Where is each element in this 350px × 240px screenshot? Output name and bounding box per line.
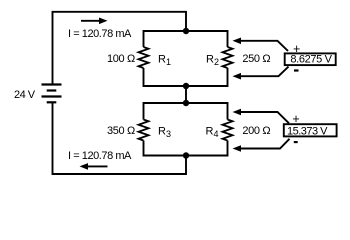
svg-text:I = 120.78 mA: I = 120.78 mA [68, 28, 132, 40]
svg-text:100 Ω: 100 Ω [107, 53, 135, 65]
wire: left vertical top (battery + to top-left corner) and top wire to node A [53, 12, 187, 85]
wire: box1 bottom rail [144, 68, 228, 86]
wire: box2 top rail [144, 103, 228, 120]
probe wire: voltmeter V2 - lead with arrow to R4 bottom [233, 139, 290, 152]
resistor R1 zigzag [139, 47, 149, 68]
svg-text:350 Ω: 350 Ω [107, 125, 135, 137]
svg-text:15.373 V: 15.373 V [287, 126, 328, 138]
voltmeter V2 box [284, 124, 337, 136]
label: - (V1) [294, 69, 299, 71]
svg-text:24 V: 24 V [14, 89, 36, 101]
arrow: bottom current direction (left) [80, 163, 108, 170]
arrow: top current direction (right) [81, 18, 108, 25]
wire: battery - down, bottom wire, up to node D [53, 102, 187, 174]
probe wire: voltmeter V1 - lead with arrow to R2 bottom [233, 67, 289, 80]
resistor R2 zigzag [223, 47, 233, 68]
node B junction dot (bottom of box1) [183, 83, 189, 89]
svg-text:8.6275 V: 8.6275 V [290, 54, 332, 66]
wire: middle link between boxes [185, 86, 187, 103]
node A junction dot (top of box1) [183, 28, 189, 34]
wire: box1 top rail [144, 31, 228, 47]
node D junction dot (bottom of box2) [183, 152, 189, 158]
svg-text:I = 120.78 mA: I = 120.78 mA [68, 150, 132, 162]
resistor R4 zigzag [223, 120, 233, 141]
wire: box2 bottom rail [144, 141, 228, 156]
probe wire: voltmeter V1 + lead with arrow to R2 top [233, 38, 289, 52]
voltmeter V1 box [285, 53, 336, 65]
node C junction dot (top of box2) [183, 100, 189, 106]
probe wire: voltmeter V2 + lead with arrow to R4 top [233, 109, 290, 124]
label: - (V2) [294, 141, 298, 143]
battery B1 24 V [42, 85, 62, 103]
svg-text:200 Ω: 200 Ω [242, 125, 270, 137]
svg-text:250 Ω: 250 Ω [242, 53, 270, 65]
resistor R3 zigzag [139, 120, 149, 141]
